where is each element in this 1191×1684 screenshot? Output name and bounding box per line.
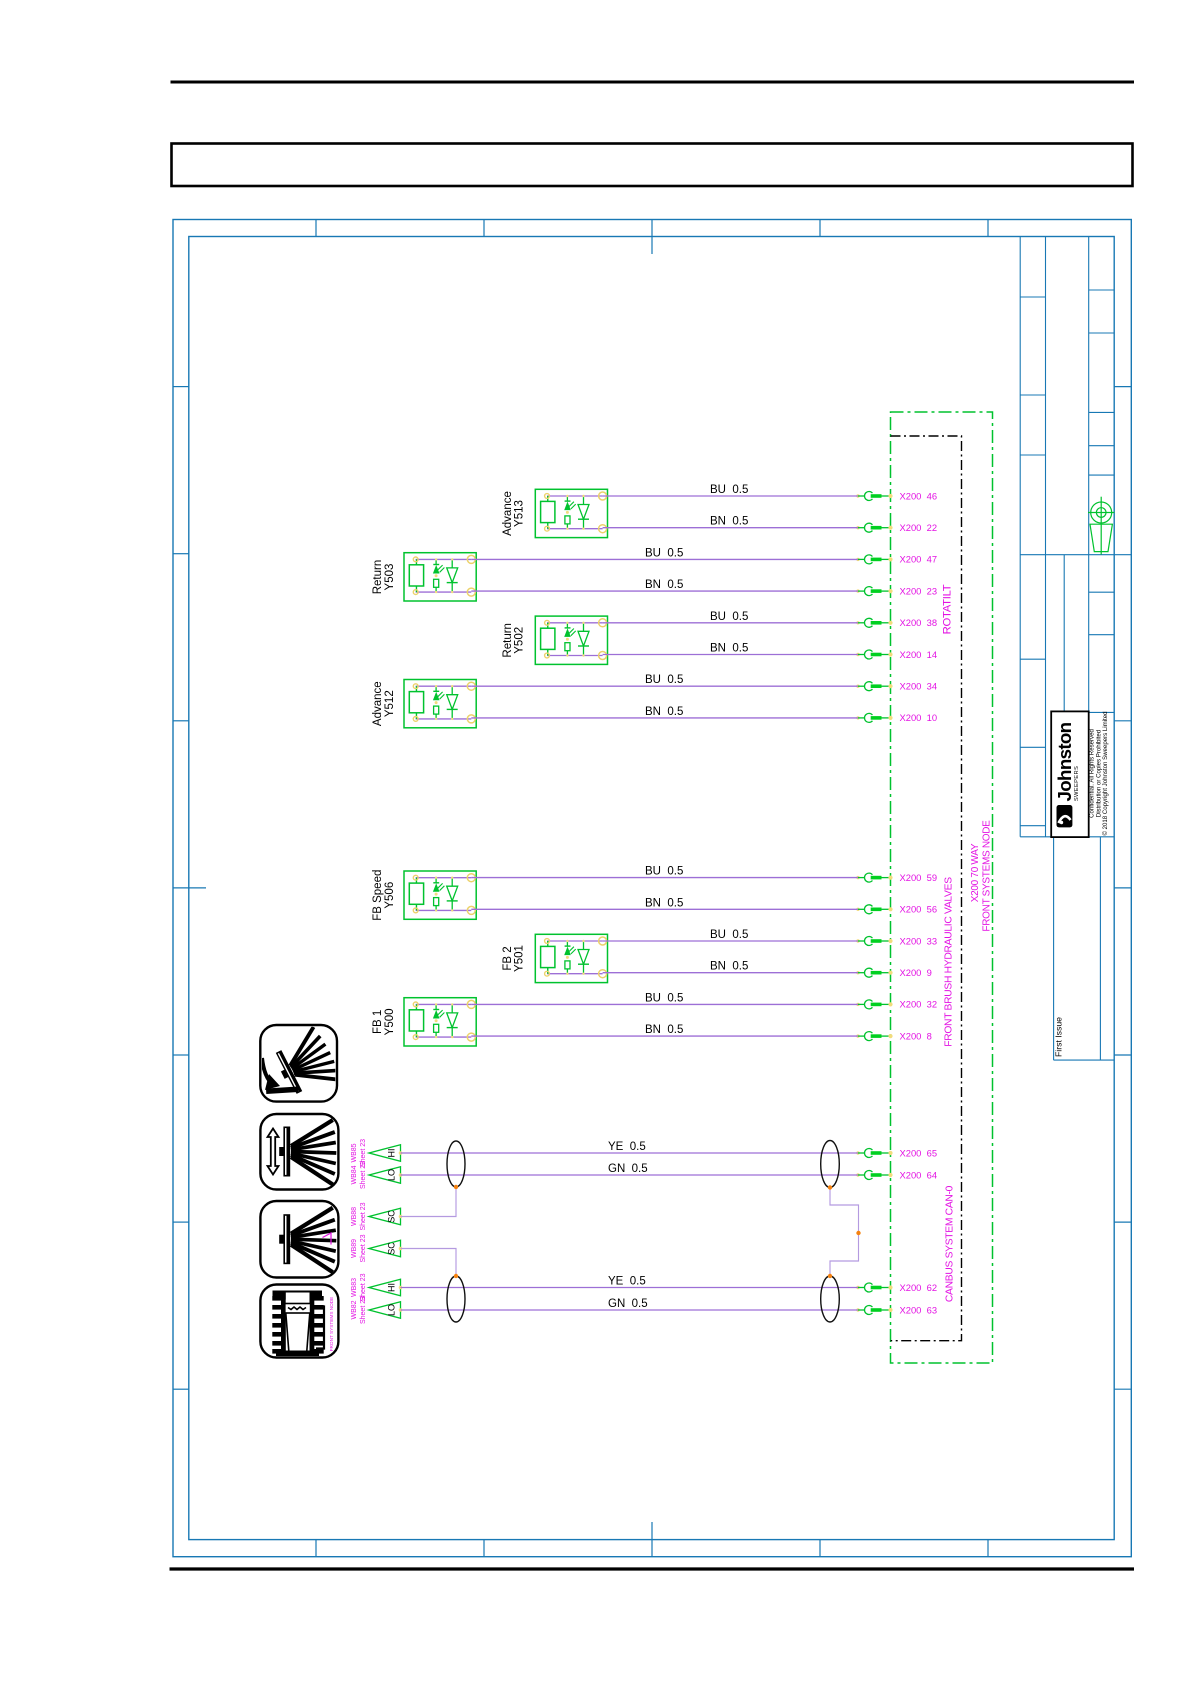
titleblock grid <box>1020 237 1131 837</box>
svg-text:Advance: Advance <box>502 491 514 536</box>
pin X200 62 <box>856 1282 937 1293</box>
pin X200 47 <box>856 554 937 565</box>
svg-text:X200 14: X200 14 <box>900 649 938 660</box>
svg-text:Y503: Y503 <box>384 564 396 591</box>
wire Y512 BN to X200 10 <box>471 706 858 718</box>
svg-text:X200 32: X200 32 <box>900 999 938 1010</box>
pin X200 10 <box>856 712 937 723</box>
svg-text:BN 0.5: BN 0.5 <box>645 1024 683 1036</box>
svg-text:X200 38: X200 38 <box>900 617 938 628</box>
wire shield SC1 <box>401 1187 457 1217</box>
pin X200 23 <box>856 585 937 596</box>
Johnston logo box <box>1051 711 1089 837</box>
svg-text:X200 65: X200 65 <box>900 1147 938 1158</box>
valve Y512 <box>404 680 476 728</box>
svg-text:Y500: Y500 <box>384 1008 396 1035</box>
label FB Speed Y506 <box>372 870 396 921</box>
svg-text:WB88: WB88 <box>351 1207 358 1226</box>
pin X200 64 <box>856 1169 937 1180</box>
offpage connector WB84 LO <box>351 1161 402 1189</box>
junction SC2 <box>454 1274 458 1278</box>
valve Y503 <box>404 553 476 601</box>
icon brush <box>260 1201 338 1278</box>
twisted pair ellipse upper right <box>821 1141 840 1188</box>
wire CAN YE to X200 65 <box>401 1141 859 1153</box>
svg-text:Sheet 23: Sheet 23 <box>360 1234 367 1262</box>
label FRONT BRUSH HYDRAULIC VALVES <box>944 877 955 1047</box>
svg-text:GN 0.5: GN 0.5 <box>608 1163 648 1175</box>
wire shield SC2 <box>401 1249 457 1277</box>
wire Y503 BU to X200 47 <box>471 547 858 559</box>
valve Y501 <box>535 934 607 982</box>
svg-text:BN 0.5: BN 0.5 <box>710 643 748 655</box>
leader mark magenta <box>323 1233 332 1245</box>
valve Y502 <box>535 616 607 664</box>
svg-text:BU 0.5: BU 0.5 <box>645 992 683 1004</box>
twisted pair ellipse upper left <box>447 1141 465 1187</box>
icon rotating brush <box>260 1025 343 1102</box>
svg-text:CANBUS SYSTEM CAN-0: CANBUS SYSTEM CAN-0 <box>945 1185 956 1302</box>
offpage connector WB88 SC <box>351 1202 402 1230</box>
wire Y501 BN to X200 9 <box>603 961 858 973</box>
svg-text:Return: Return <box>372 560 384 595</box>
copyright line 3 <box>1102 711 1109 835</box>
offpage connector WB82 LO <box>351 1296 402 1324</box>
svg-text:First Issue: First Issue <box>1054 1017 1064 1057</box>
svg-text:Sheet 23: Sheet 23 <box>360 1202 367 1230</box>
wire Y502 BN to X200 14 <box>603 643 858 655</box>
valve Y513 <box>535 489 607 537</box>
Johnston wordmark <box>1054 722 1075 801</box>
svg-text:Return: Return <box>502 623 514 658</box>
wire Y502 BU to X200 38 <box>603 611 858 623</box>
wire CAN GN to X200 63 <box>401 1298 859 1310</box>
svg-text:X200 23: X200 23 <box>900 585 938 596</box>
SWEEPERS wordmark <box>1074 766 1080 801</box>
svg-text:X200 46: X200 46 <box>900 490 938 501</box>
pin X200 65 <box>856 1147 937 1158</box>
pin X200 9 <box>856 967 932 978</box>
svg-text:WB89: WB89 <box>351 1239 358 1258</box>
twisted pair ellipse lower left <box>447 1276 465 1322</box>
svg-text:X200 22: X200 22 <box>900 522 938 533</box>
pin X200 56 <box>856 904 937 915</box>
svg-text:X200 47: X200 47 <box>900 554 938 565</box>
title box <box>172 144 1133 187</box>
svg-text:FRONT SYSTEMS NODE: FRONT SYSTEMS NODE <box>981 820 992 932</box>
svg-text:Y502: Y502 <box>514 627 526 654</box>
svg-text:Advance: Advance <box>372 681 384 726</box>
wire Y500 BN to X200 8 <box>471 1024 858 1036</box>
wire Y503 BN to X200 23 <box>471 579 858 591</box>
svg-text:FB 2: FB 2 <box>502 946 514 970</box>
icon brush raise lower <box>260 1114 338 1190</box>
pin X200 38 <box>856 617 937 628</box>
svg-text:X200 8: X200 8 <box>900 1030 932 1041</box>
svg-text:X200 59: X200 59 <box>900 872 938 883</box>
svg-text:BU 0.5: BU 0.5 <box>710 484 748 496</box>
svg-text:HI: HI <box>387 1283 397 1292</box>
svg-text:Y513: Y513 <box>514 500 526 527</box>
svg-text:Johnston: Johnston <box>1054 722 1075 801</box>
label FB 2 Y501 <box>502 945 526 972</box>
svg-text:X200 33: X200 33 <box>900 935 938 946</box>
pin X200 59 <box>856 872 937 883</box>
pin X200 46 <box>856 490 937 501</box>
svg-text:BN 0.5: BN 0.5 <box>710 961 748 973</box>
svg-text:FB 1: FB 1 <box>372 1010 384 1034</box>
pin X200 32 <box>856 999 937 1010</box>
svg-text:SC: SC <box>387 1242 397 1255</box>
label FRONT SYSTEMS NODE <box>981 820 992 932</box>
svg-text:X200 34: X200 34 <box>900 681 938 692</box>
wire CAN YE to X200 62 <box>401 1276 859 1288</box>
svg-text:© 2018 Copyright Johnston Swee: © 2018 Copyright Johnston Sweepers Limit… <box>1102 711 1109 835</box>
icon front systems node <box>260 1285 338 1358</box>
copyright line 2 <box>1095 730 1102 817</box>
label ROTATILT <box>941 584 953 634</box>
copyright line 1 <box>1089 729 1096 818</box>
svg-text:X200 70 WAY: X200 70 WAY <box>970 843 981 902</box>
svg-text:WB85: WB85 <box>351 1143 358 1162</box>
junction shield bottom right <box>828 1274 832 1278</box>
svg-text:GN 0.5: GN 0.5 <box>608 1298 648 1310</box>
svg-text:X200 62: X200 62 <box>900 1282 938 1293</box>
label X200 70 WAY <box>970 843 981 902</box>
third angle projection symbol <box>1088 497 1114 555</box>
svg-text:SC: SC <box>387 1210 397 1223</box>
frame grid ticks left <box>173 387 206 1390</box>
svg-text:X200 64: X200 64 <box>900 1169 938 1180</box>
pin X200 63 <box>856 1304 937 1315</box>
label FB 1 Y500 <box>372 1008 396 1035</box>
valve Y500 <box>404 998 476 1046</box>
svg-text:LO: LO <box>387 1304 397 1316</box>
label Return Y502 <box>502 623 526 658</box>
svg-text:YE 0.5: YE 0.5 <box>608 1141 646 1153</box>
svg-text:Y501: Y501 <box>514 945 526 972</box>
wire Y513 BU to X200 46 <box>603 484 858 496</box>
svg-text:Y506: Y506 <box>384 882 396 909</box>
pin X200 8 <box>856 1030 932 1041</box>
drawing frame outer border <box>173 220 1131 1557</box>
bottom rule line <box>170 1567 1135 1570</box>
label CANBUS SYSTEM CAN-0 <box>945 1185 956 1302</box>
svg-text:BN 0.5: BN 0.5 <box>645 897 683 909</box>
wire Y506 BN to X200 56 <box>471 897 858 909</box>
wire Y500 BU to X200 32 <box>471 992 858 1004</box>
svg-text:BN 0.5: BN 0.5 <box>645 579 683 591</box>
revision box <box>1054 837 1115 1060</box>
wire Y513 BN to X200 22 <box>603 516 858 528</box>
svg-text:BU 0.5: BU 0.5 <box>710 929 748 941</box>
junction SC1 <box>454 1185 458 1189</box>
wire CAN GN to X200 64 <box>401 1163 859 1175</box>
wire Y506 BU to X200 59 <box>471 866 858 878</box>
svg-text:BU 0.5: BU 0.5 <box>645 547 683 559</box>
svg-text:LO: LO <box>387 1169 397 1181</box>
svg-text:Sheet 23: Sheet 23 <box>360 1296 367 1324</box>
pin X200 33 <box>856 935 937 946</box>
junction shield top right <box>828 1185 832 1189</box>
svg-text:Y512: Y512 <box>384 690 396 717</box>
twisted pair ellipse lower right <box>821 1276 840 1322</box>
svg-text:BU 0.5: BU 0.5 <box>710 611 748 623</box>
svg-text:SWEEPERS: SWEEPERS <box>1074 766 1080 801</box>
svg-text:X200 63: X200 63 <box>900 1304 938 1315</box>
svg-text:BN 0.5: BN 0.5 <box>710 516 748 528</box>
svg-text:HI: HI <box>387 1149 397 1158</box>
label Return Y503 <box>372 560 396 595</box>
svg-text:FRONT BRUSH HYDRAULIC VALVES: FRONT BRUSH HYDRAULIC VALVES <box>944 877 955 1047</box>
wire Y512 BU to X200 34 <box>471 674 858 686</box>
node X200 boundary green dash-dot box <box>891 412 993 1363</box>
label Advance Y512 <box>372 681 396 726</box>
pin X200 14 <box>856 649 937 660</box>
svg-text:BN 0.5: BN 0.5 <box>645 706 683 718</box>
wire Y501 BU to X200 33 <box>603 929 858 941</box>
svg-text:X200 10: X200 10 <box>900 712 938 723</box>
svg-text:Sheet 23: Sheet 23 <box>360 1161 367 1189</box>
top rule line <box>171 81 1135 84</box>
offpage connector WB83 HI <box>351 1273 402 1301</box>
junction shield mid right <box>856 1231 860 1235</box>
drawing frame inner border <box>189 237 1114 1540</box>
svg-text:ROTATILT: ROTATILT <box>941 584 953 634</box>
svg-text:WB84: WB84 <box>351 1165 358 1184</box>
svg-text:X200 56: X200 56 <box>900 904 938 915</box>
pin X200 34 <box>856 681 937 692</box>
svg-text:FB Speed: FB Speed <box>372 870 384 921</box>
pin X200 22 <box>856 522 937 533</box>
label Advance Y513 <box>502 491 526 536</box>
svg-text:BU 0.5: BU 0.5 <box>645 866 683 878</box>
frame grid ticks top <box>316 220 988 255</box>
frame grid ticks right <box>1114 387 1131 1390</box>
svg-text:WB82: WB82 <box>351 1300 358 1319</box>
svg-text:BU 0.5: BU 0.5 <box>645 674 683 686</box>
revision text First Issue <box>1054 1017 1064 1057</box>
wire shield link right <box>830 1188 859 1277</box>
valve Y506 <box>404 871 476 919</box>
frame grid ticks bottom <box>316 1522 988 1557</box>
offpage connector WB85 HI <box>351 1139 402 1167</box>
svg-text:FRONT SYSTEMS NODE: FRONT SYSTEMS NODE <box>329 1297 334 1352</box>
inner black dash-dot boundary <box>891 436 962 1341</box>
svg-text:YE 0.5: YE 0.5 <box>608 1276 646 1288</box>
svg-text:X200 9: X200 9 <box>900 967 932 978</box>
Johnston logo swirl glyph <box>1057 805 1073 827</box>
offpage connector WB89 SC <box>351 1234 402 1262</box>
svg-text:WB83: WB83 <box>351 1278 358 1297</box>
